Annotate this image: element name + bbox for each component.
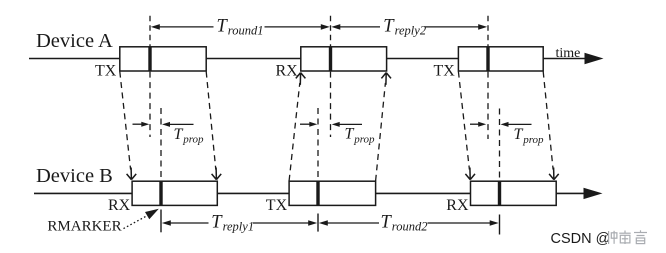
frame box A1 xyxy=(120,47,206,71)
rx arrow at A2 right xyxy=(381,73,391,85)
RMARKER bar A3 xyxy=(486,47,489,71)
svg-text:T: T xyxy=(383,17,395,37)
svg-text:Device B: Device B xyxy=(36,165,113,187)
RMARKER bar B3 xyxy=(498,181,501,205)
svg-text:RX: RX xyxy=(108,197,131,214)
svg-text:T: T xyxy=(514,126,524,143)
RMARKER bar A1 xyxy=(148,47,151,71)
dimension T_reply1 xyxy=(162,213,317,234)
dashed trajectory A3 right edge to B3 xyxy=(543,72,553,170)
svg-text:T: T xyxy=(381,213,393,233)
watermark CJK glyph yin1 xyxy=(634,230,647,243)
svg-text:Device A: Device A xyxy=(36,30,113,52)
svg-text:prop: prop xyxy=(182,134,204,146)
svg-text:RMARKER: RMARKER xyxy=(47,219,121,235)
frame box B1 xyxy=(132,181,217,205)
tick below B2 bar xyxy=(317,214,319,232)
svg-text:prop: prop xyxy=(522,134,544,146)
svg-text:round1: round1 xyxy=(228,24,264,38)
rx arrow at B1 left xyxy=(127,168,137,180)
device A timeline xyxy=(29,58,586,60)
frame box A2 xyxy=(301,47,387,71)
svg-text:TX: TX xyxy=(95,63,117,80)
frame box B3 xyxy=(471,181,557,205)
svg-text:TX: TX xyxy=(266,197,288,214)
rx arrow at A2 left xyxy=(296,73,306,85)
svg-text:reply1: reply1 xyxy=(223,220,254,234)
rx arrow at B3 left xyxy=(465,168,475,180)
svg-text:RX: RX xyxy=(276,63,299,80)
dashed marker line top A3 xyxy=(487,16,489,47)
dashed marker line down from A3 bar xyxy=(487,72,489,139)
dashed marker line up from B1 bar xyxy=(160,108,162,181)
dashed trajectory B2 right edge to A2 xyxy=(376,83,386,181)
rx arrow at B3 right xyxy=(549,168,559,180)
dimension T_round2 xyxy=(319,213,499,234)
watermark CJK glyph nan2 xyxy=(619,231,630,245)
RMARKER bar A2 xyxy=(329,47,332,71)
dashed trajectory A1 bar to below (vertical) xyxy=(149,72,151,137)
watermark CJK glyph zhong4 xyxy=(609,231,617,244)
device A time axis arrowhead xyxy=(585,53,604,64)
frame box B2 xyxy=(289,181,376,205)
svg-text:reply2: reply2 xyxy=(395,24,426,38)
tick below B1 bar xyxy=(160,210,162,233)
svg-text:TX: TX xyxy=(434,63,456,80)
T_prop group 2 arrows xyxy=(300,122,362,127)
rx arrow at B1 right xyxy=(212,168,222,180)
dashed marker line up from B2 bar xyxy=(317,108,319,181)
svg-text:T: T xyxy=(174,126,184,143)
T_prop group 3 arrows xyxy=(470,122,532,127)
svg-text:T: T xyxy=(217,17,229,37)
dashed trajectory A3 left edge to B3 xyxy=(458,72,469,170)
dashed trajectory B2 left edge to A2 xyxy=(289,83,300,181)
dashed marker line up from B3 bar xyxy=(499,109,501,181)
dotted pointer RMARKER to B1 bar xyxy=(124,215,149,228)
dimension T_round1 xyxy=(151,17,330,38)
dashed marker line down from A2 bar xyxy=(330,72,332,137)
pointer arrowhead xyxy=(145,209,159,219)
tick below B3 bar xyxy=(499,215,501,235)
T_prop group 1 arrows xyxy=(133,122,194,127)
dashed marker line top A1 xyxy=(149,16,151,47)
svg-text:T: T xyxy=(211,213,223,233)
svg-text:round2: round2 xyxy=(392,220,428,234)
dashed marker line top A2 xyxy=(330,16,332,47)
svg-text:prop: prop xyxy=(353,133,375,145)
svg-text:time: time xyxy=(556,46,581,61)
dimension T_reply2 xyxy=(331,17,487,38)
RMARKER bar B1 xyxy=(159,181,162,205)
svg-text:T: T xyxy=(345,126,355,143)
device B time axis arrowhead xyxy=(584,188,603,199)
dashed trajectory A1 right edge to B1 xyxy=(206,72,216,170)
device B timeline xyxy=(34,192,585,194)
svg-text:CSDN @: CSDN @ xyxy=(551,231,611,247)
frame box A3 xyxy=(458,47,543,71)
RMARKER bar B2 xyxy=(316,181,319,205)
svg-text:RX: RX xyxy=(446,197,469,214)
dashed trajectory A1 left edge to B1 xyxy=(120,72,131,170)
